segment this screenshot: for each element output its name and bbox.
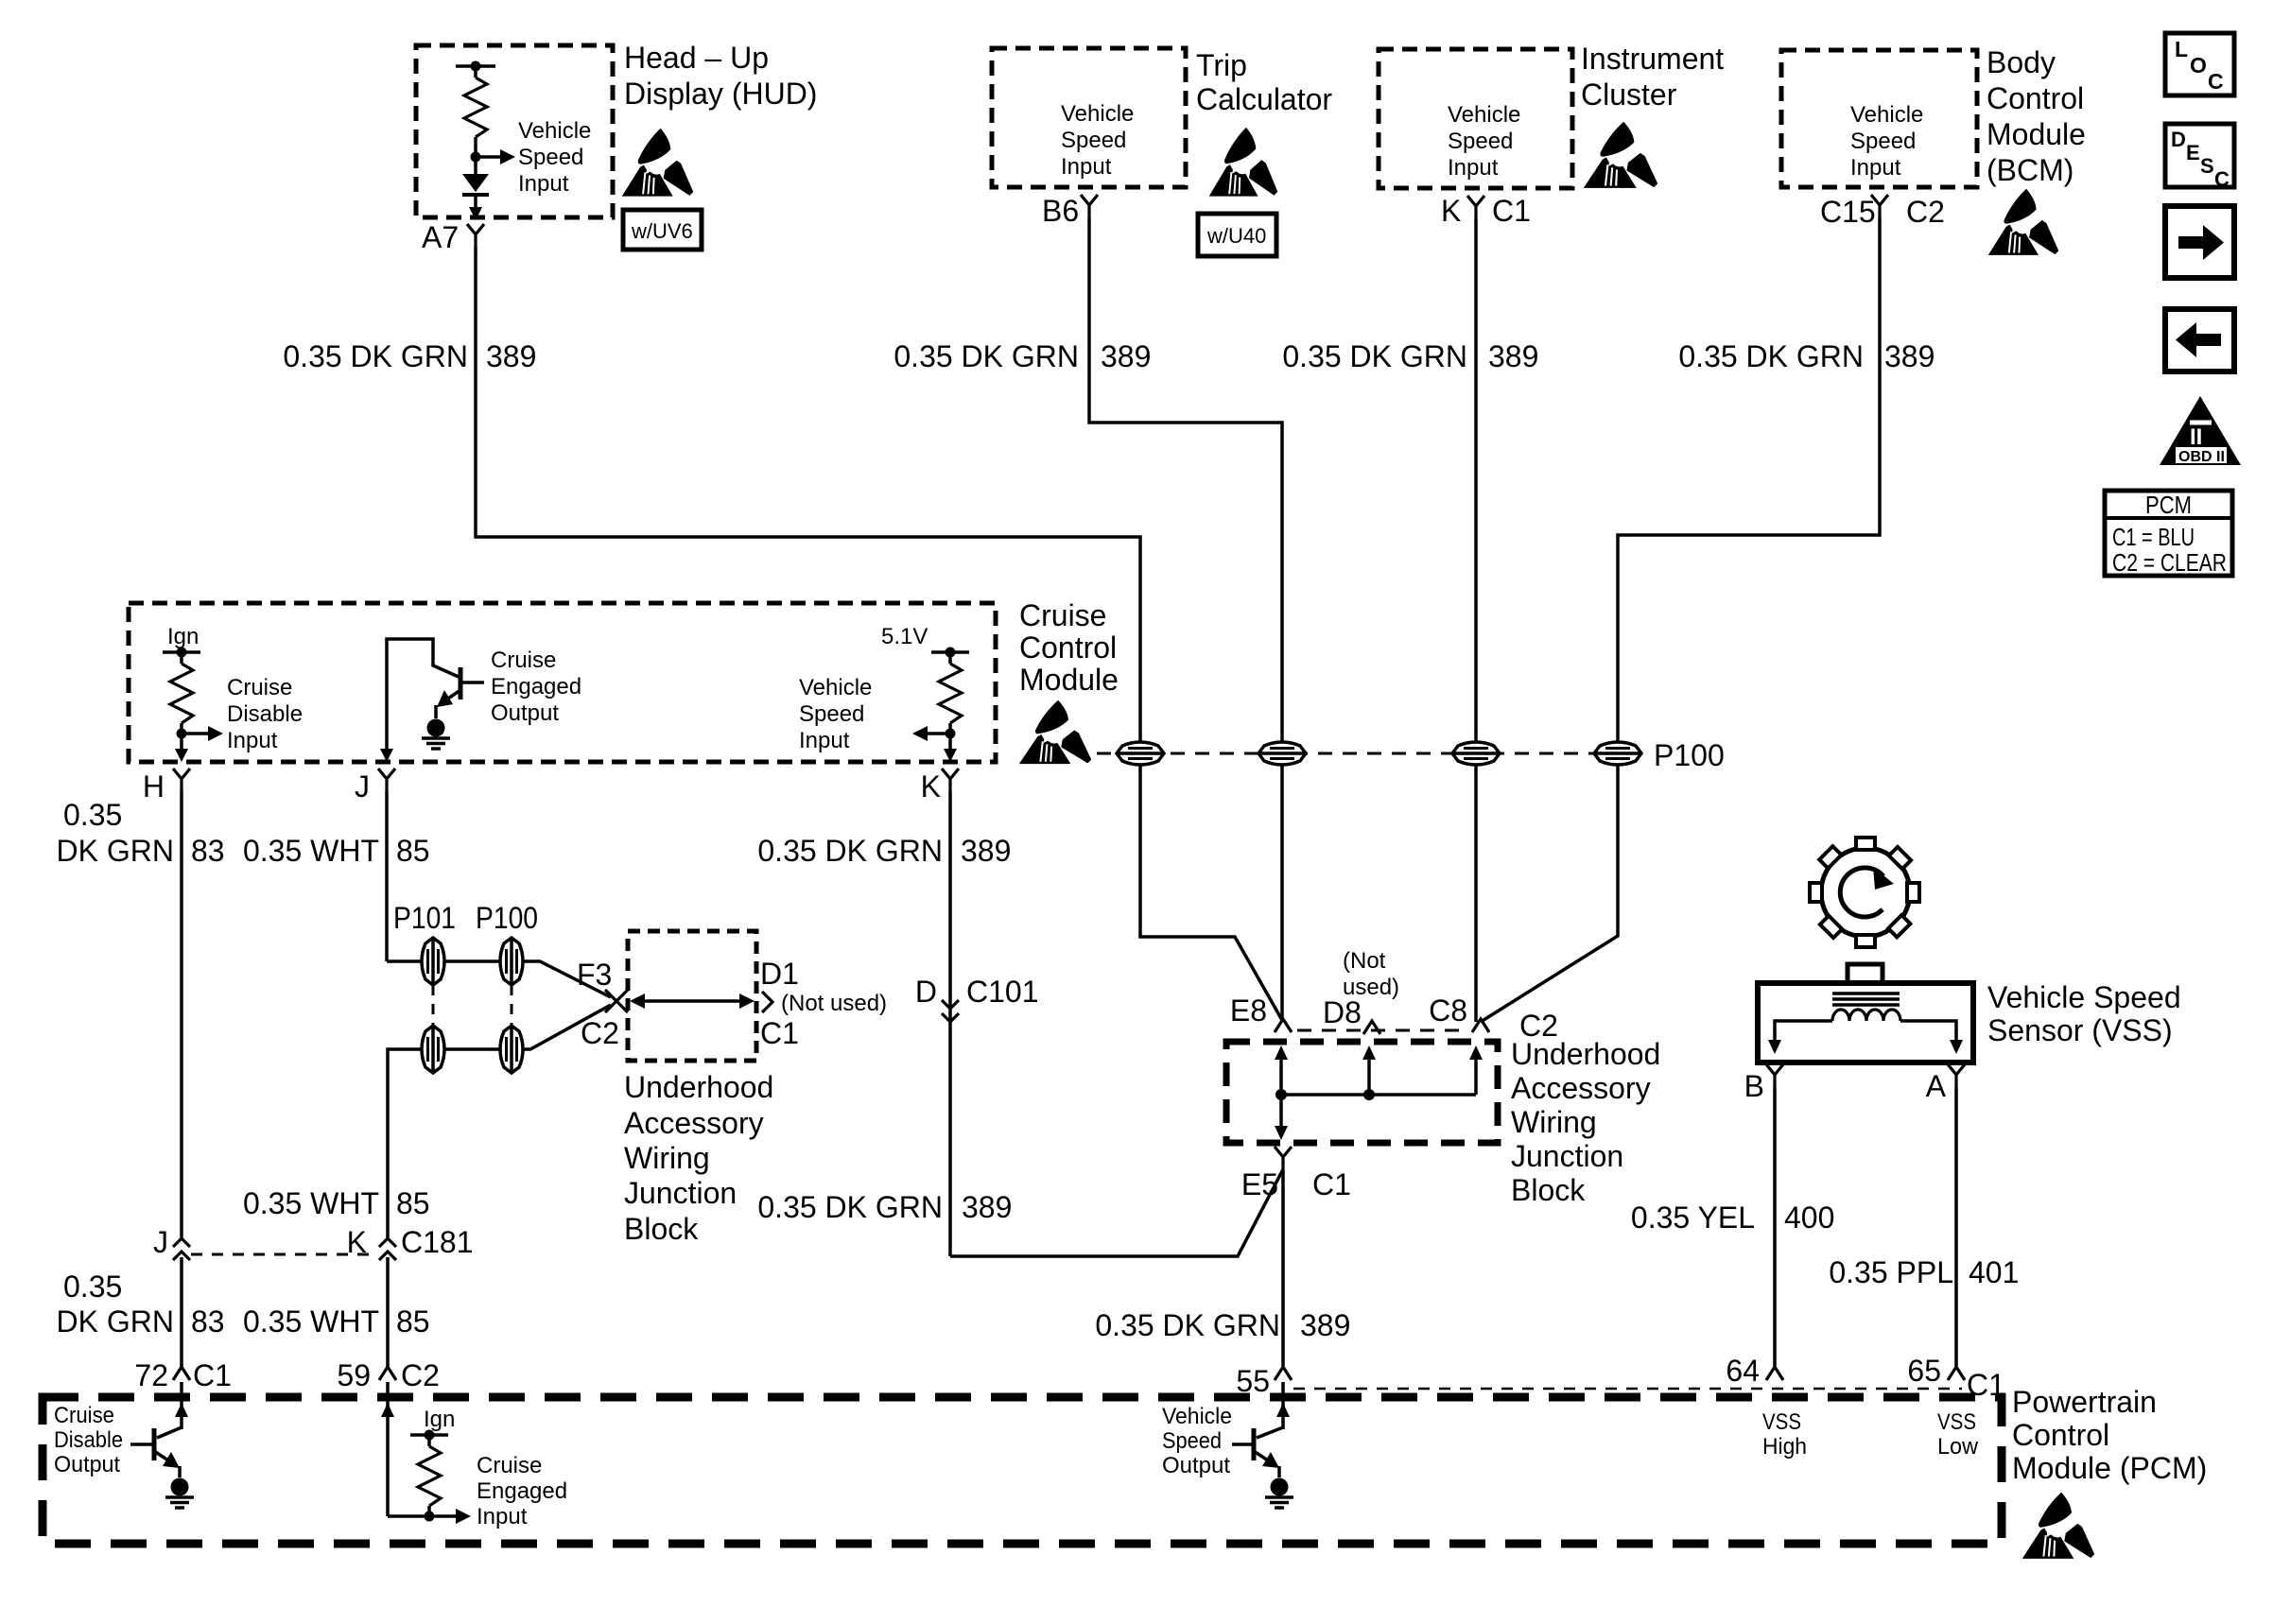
svg-text:Cruise: Cruise (477, 1453, 542, 1478)
svg-text:C: C (2208, 69, 2224, 94)
svg-text:Input: Input (799, 728, 850, 753)
svg-text:S: S (2200, 154, 2214, 178)
svg-text:72: 72 (134, 1358, 168, 1392)
pin E8 connector caret (1275, 1019, 1292, 1032)
Cruise Disable Output text (54, 1403, 123, 1477)
ground (cruise engaged output emitter) (422, 719, 450, 750)
Body Control Module box (1781, 50, 1977, 187)
pin 55 connector caret (1275, 1367, 1292, 1380)
ESD symbol (HUD) (622, 129, 693, 197)
svg-text:E8: E8 (1230, 993, 1267, 1028)
HUD junction node with arrow to Vehicle Speed Input (471, 137, 516, 174)
svg-text:DK GRN: DK GRN (57, 834, 174, 868)
wire label 0.35 DK GRN 389 (cruise K) (757, 834, 1011, 868)
ESD symbol (Trip Calculator) (1209, 128, 1278, 197)
svg-text:K: K (921, 769, 941, 803)
wire label 0.35 DK GRN 389 (cruise K lower) (757, 1190, 1012, 1224)
svg-text:85: 85 (396, 834, 430, 868)
svg-text:Speed: Speed (799, 701, 864, 727)
svg-text:Disable: Disable (54, 1427, 123, 1453)
VSS internal leads with arrows (1768, 1021, 1963, 1054)
inline connector P101 (upper) (422, 938, 444, 985)
pin E5/C1 connector (1275, 1147, 1292, 1169)
svg-text:PCM: PCM (2145, 491, 2192, 519)
svg-text:389: 389 (1488, 339, 1538, 373)
svg-text:Cruise: Cruise (54, 1403, 114, 1428)
PCM connector C1 dashed pin line (1293, 1388, 1962, 1391)
inline connector P100 on wire 1 (1117, 742, 1164, 765)
svg-text:Speed: Speed (518, 145, 583, 170)
not-used pin mark (left JB) (762, 992, 772, 1012)
svg-text:0.35 DK GRN: 0.35 DK GRN (757, 834, 943, 868)
svg-text:C2: C2 (1906, 195, 1945, 229)
inline connector P101 (lower) (422, 1026, 444, 1073)
svg-text:0.35: 0.35 (63, 1270, 122, 1304)
VSS High text (1762, 1409, 1807, 1460)
Vehicle Speed Sensor body (1758, 964, 1973, 1063)
wire label 0.35 DK GRN 389 (Trip) (894, 339, 1151, 373)
BCM label (1987, 45, 2086, 187)
OBD II symbol (2160, 396, 2241, 465)
wire label 0.35 PPL 401 (1829, 1255, 2019, 1289)
svg-text:Vehicle: Vehicle (1061, 101, 1134, 127)
inline connector P100 (lower) (500, 1026, 523, 1073)
svg-text:Cluster: Cluster (1581, 78, 1677, 112)
wire label 0.35 DK GRN 389 (BCM) (1678, 339, 1935, 373)
wire label 0.35 WHT 85 (lower) (243, 1304, 430, 1339)
Underhood Accessory Wiring Junction Block text (middle) (1511, 1037, 1660, 1207)
PCM connector legend box (2105, 491, 2232, 577)
svg-text:C1: C1 (1492, 194, 1531, 228)
dashed link P101 pair (432, 985, 435, 1030)
svg-text:D: D (915, 975, 937, 1009)
svg-text:L: L (2175, 37, 2188, 61)
Trip Calculator module box (992, 48, 1186, 187)
svg-text:P100: P100 (476, 901, 538, 935)
junction block top dashed pin line (1297, 1029, 1464, 1032)
svg-text:Sensor (VSS): Sensor (VSS) (1987, 1013, 2173, 1047)
(Not used) note (mid JB D8) (1343, 948, 1399, 1000)
svg-text:0.35 DK GRN: 0.35 DK GRN (1678, 339, 1864, 373)
junction with arrow to Vehicle Speed Input (cruise) (912, 723, 957, 762)
svg-text:B6: B6 (1042, 194, 1079, 228)
svg-text:0.35 DK GRN: 0.35 DK GRN (1282, 339, 1467, 373)
P100 pass-through dashed line (1097, 752, 1598, 755)
svg-text:(Not: (Not (1343, 948, 1386, 974)
svg-text:Input: Input (1061, 154, 1112, 180)
Cruise Disable Input text (227, 675, 303, 753)
svg-text:0.35: 0.35 (63, 798, 122, 832)
resistor (vehicle speed input pull-up, cruise) (939, 664, 962, 723)
Ign feed bar with junction (cruise disable) (163, 648, 200, 665)
wire label 0.35 DK GRN 389 (PCM 55) (1095, 1308, 1350, 1342)
pin B connector (1766, 1064, 1783, 1087)
svg-text:Wiring: Wiring (624, 1141, 710, 1175)
wire 59/C2 internal with up arrow (381, 1382, 471, 1524)
svg-text:Speed: Speed (1850, 129, 1916, 154)
svg-text:Control: Control (2012, 1418, 2109, 1452)
pin B6 connector (1081, 195, 1098, 217)
w/U40 option box (1198, 214, 1276, 256)
svg-text:J: J (355, 769, 370, 803)
svg-text:C2 = CLEAR: C2 = CLEAR (2112, 548, 2227, 577)
svg-text:II: II (2190, 424, 2202, 450)
pin 64 connector caret (1766, 1367, 1783, 1380)
VSS coil winding (1832, 1010, 1900, 1021)
wire H upper (0.35 DK GRN 83) (180, 791, 183, 1238)
svg-text:0.35 YEL: 0.35 YEL (1631, 1201, 1755, 1235)
svg-text:Body: Body (1987, 45, 2056, 79)
svg-text:C1: C1 (1312, 1167, 1351, 1201)
svg-text:Output: Output (491, 700, 559, 726)
svg-text:389: 389 (486, 339, 536, 373)
svg-text:C1: C1 (1967, 1368, 2005, 1402)
pin J connector (378, 769, 395, 791)
VSS core lines (1832, 993, 1900, 1005)
dashed link P100 pair (511, 985, 513, 1030)
wire cruise K lower run to E5 (950, 1169, 1283, 1256)
ground (cruise disable output) (165, 1478, 194, 1509)
svg-text:A7: A7 (422, 220, 459, 254)
wire J to junction block (upper run) (387, 961, 611, 997)
wire J upper (0.35 WHT 85) (385, 791, 389, 961)
svg-text:C181: C181 (401, 1225, 474, 1259)
internal bus of middle junction block (1275, 1045, 1483, 1140)
pin C8 connector caret (1472, 1019, 1489, 1032)
svg-text:Vehicle: Vehicle (799, 675, 872, 700)
svg-text:E: E (2186, 141, 2200, 164)
pin K connector (cruise) (942, 769, 959, 791)
svg-text:D: D (2171, 128, 2186, 151)
svg-text:0.35 DK GRN: 0.35 DK GRN (894, 339, 1079, 373)
HUD module label (624, 41, 817, 111)
svg-text:P100: P100 (1654, 738, 1725, 772)
svg-text:Wiring: Wiring (1511, 1105, 1597, 1139)
wire label 0.35 DK GRN 83 (lower) (57, 1270, 225, 1339)
BCM small text (1850, 102, 1923, 181)
transistor Q (vehicle speed output, PCM) (1232, 1382, 1290, 1477)
Instrument Cluster label (1581, 42, 1724, 112)
svg-text:Cruise: Cruise (1019, 598, 1106, 632)
5.1V feed bar with junction (931, 648, 969, 665)
connector C181 dashed line (191, 1253, 378, 1256)
svg-text:C15: C15 (1820, 195, 1876, 229)
inline connector P100 (upper) (500, 938, 523, 985)
svg-text:H: H (143, 769, 165, 803)
Vehicle Speed Input text (cruise) (799, 675, 872, 753)
svg-text:0.35 DK GRN: 0.35 DK GRN (757, 1190, 943, 1224)
svg-text:K: K (347, 1225, 367, 1259)
Ign feed bar (PCM) (410, 1430, 448, 1447)
resistor (cruise engaged input pull-up, PCM) (418, 1446, 441, 1506)
LOC navigation icon (2165, 33, 2234, 95)
svg-text:K: K (1441, 194, 1461, 228)
pin 65 connector caret (1948, 1367, 1965, 1380)
Instrument Cluster module box (1379, 49, 1572, 188)
inline connector P100 on wire 2 (1258, 742, 1306, 765)
wire label 0.35 DK GRN 83 (upper) (57, 798, 225, 868)
Instrument Cluster small text (1448, 102, 1520, 181)
Powertrain Control Module label (2012, 1385, 2207, 1485)
svg-text:Underhood: Underhood (1511, 1037, 1660, 1071)
svg-text:Trip: Trip (1196, 48, 1247, 82)
svg-text:59: 59 (337, 1358, 371, 1392)
wire label 0.35 DK GRN 389 (Cluster) (1282, 339, 1538, 373)
wire label 0.35 DK GRN 389 (HUD) (283, 339, 536, 373)
ground (vehicle speed output) (1265, 1478, 1293, 1509)
svg-text:Engaged: Engaged (491, 674, 581, 700)
svg-text:5.1V: 5.1V (881, 624, 928, 649)
wire label 0.35 WHT 85 (upper) (243, 834, 430, 868)
inline connector P100 on wire 4 (1594, 742, 1641, 765)
VSS Low text (1937, 1409, 1979, 1460)
w/UV6 option box (623, 210, 702, 250)
svg-text:Junction: Junction (624, 1176, 737, 1210)
svg-text:83: 83 (191, 834, 225, 868)
Head-Up Display module box (416, 45, 613, 217)
svg-text:C1: C1 (760, 1016, 799, 1050)
wire E5/C1 down to PCM pin 55 (1281, 1169, 1285, 1367)
wire H lower to PCM pin 72 (180, 1257, 183, 1367)
svg-text:Block: Block (624, 1212, 699, 1246)
wire from BCM C15/C2 (0.35 DK GRN 389) (1481, 217, 1880, 1022)
svg-text:C8: C8 (1429, 993, 1467, 1028)
wire from Trip Calculator B6 (0.35 DK GRN 389) (1089, 217, 1282, 1022)
svg-text:Output: Output (1162, 1453, 1230, 1478)
Cruise Engaged Output text (491, 648, 581, 726)
svg-text:Control: Control (1019, 631, 1117, 665)
svg-text:Ign: Ign (424, 1407, 455, 1432)
svg-text:64: 64 (1726, 1354, 1760, 1388)
svg-text:85: 85 (396, 1186, 430, 1220)
svg-text:400: 400 (1784, 1201, 1834, 1235)
connector D/C101 on cruise K wire (942, 1000, 959, 1022)
svg-text:Powertrain: Powertrain (2012, 1385, 2157, 1419)
svg-text:OBD II: OBD II (2178, 449, 2225, 465)
Trip Calculator label (1196, 48, 1332, 116)
wire from Instrument Cluster K/C1 (0.35 DK GRN 389) (1474, 218, 1478, 1022)
Cruise Control Module label (1019, 598, 1119, 697)
HUD small text Vehicle Speed Input (518, 118, 591, 197)
DESC navigation icon (2165, 124, 2234, 191)
svg-text:Input: Input (477, 1504, 528, 1529)
wire VSS B (0.35 YEL 400) (1773, 1087, 1777, 1369)
svg-text:Instrument: Instrument (1581, 42, 1724, 76)
svg-text:w/UV6: w/UV6 (631, 219, 693, 243)
svg-text:P101: P101 (393, 901, 456, 935)
svg-text:Vehicle: Vehicle (1850, 102, 1923, 128)
svg-text:C1: C1 (193, 1358, 232, 1392)
svg-text:Input: Input (1850, 155, 1901, 181)
svg-text:VSS: VSS (1762, 1409, 1801, 1435)
pin A connector (1948, 1064, 1965, 1087)
svg-text:D8: D8 (1323, 995, 1362, 1029)
wire from HUD A7 (0.35 DK GRN 389) (476, 247, 1283, 1022)
svg-text:Module (PCM): Module (PCM) (2012, 1451, 2207, 1485)
svg-text:Module: Module (1019, 663, 1119, 697)
svg-text:Display (HUD): Display (HUD) (624, 77, 817, 111)
ESD symbol (Cruise Control Module) (1019, 700, 1091, 764)
svg-text:0.35 DK GRN: 0.35 DK GRN (283, 339, 468, 373)
svg-text:Vehicle Speed: Vehicle Speed (1987, 980, 2181, 1014)
svg-text:D1: D1 (760, 957, 799, 991)
svg-text:85: 85 (396, 1304, 430, 1339)
resistor (cruise disable input pull-up) (170, 664, 193, 723)
ESD symbol (Instrument Cluster) (1584, 122, 1657, 188)
svg-text:Input: Input (1448, 155, 1499, 181)
pin H connector (173, 769, 190, 791)
svg-text:VSS: VSS (1937, 1409, 1976, 1435)
Vehicle Speed Sensor label (1987, 980, 2181, 1047)
svg-text:Speed: Speed (1448, 129, 1513, 154)
svg-text:Output: Output (54, 1452, 120, 1477)
right arrow navigation icon (2165, 206, 2234, 278)
svg-text:401: 401 (1969, 1255, 2019, 1289)
svg-text:Block: Block (1511, 1173, 1586, 1207)
svg-text:Engaged: Engaged (477, 1478, 567, 1504)
junction with arrow to Cruise Disable Input (175, 723, 223, 762)
svg-text:389: 389 (962, 1190, 1012, 1224)
pin connector C15/C2 (BCM) (1871, 195, 1888, 217)
svg-text:B: B (1744, 1069, 1764, 1103)
svg-text:Junction: Junction (1511, 1139, 1623, 1173)
svg-text:Speed: Speed (1162, 1428, 1222, 1454)
diode D (HUD input clamp) (462, 174, 489, 220)
wire K upper (0.35 DK GRN 389 cruise) (948, 791, 952, 1256)
svg-text:Input: Input (518, 171, 569, 197)
svg-text:65: 65 (1907, 1354, 1941, 1388)
svg-text:389: 389 (1101, 339, 1151, 373)
svg-text:High: High (1762, 1434, 1807, 1460)
svg-text:O: O (2190, 53, 2207, 78)
svg-text:Vehicle: Vehicle (518, 118, 591, 144)
pin 59 connector caret (379, 1367, 396, 1380)
svg-text:Low: Low (1937, 1434, 1979, 1460)
Underhood Accessory Wiring Junction Block text (left) (624, 1070, 773, 1246)
svg-text:Input: Input (227, 728, 278, 753)
transistor Q (cruise engaged output) (380, 639, 484, 762)
transistor Q (cruise disable output, PCM) (130, 1382, 188, 1477)
svg-text:Accessory: Accessory (1511, 1071, 1651, 1105)
svg-text:C1 = BLU: C1 = BLU (2112, 523, 2195, 551)
svg-text:E5: E5 (1241, 1167, 1278, 1201)
svg-text:A: A (1926, 1069, 1947, 1103)
svg-text:C2: C2 (581, 1016, 619, 1050)
svg-text:C: C (2214, 167, 2230, 191)
wire label 0.35 YEL 400 (1631, 1201, 1834, 1235)
VSS tone wheel gear (1787, 814, 1942, 969)
wire K-C181 to junction block (lower run) (388, 1005, 611, 1238)
resistor (HUD vehicle speed input pull-up) (464, 78, 487, 137)
svg-text:0.35 DK GRN: 0.35 DK GRN (1095, 1308, 1280, 1342)
pin J connector C181 (double chevron) (173, 1238, 190, 1260)
svg-text:Head – Up: Head – Up (624, 41, 769, 75)
ESD symbol (BCM) (1988, 189, 2058, 255)
svg-text:Calculator: Calculator (1196, 82, 1332, 116)
svg-text:389: 389 (1884, 339, 1935, 373)
svg-text:DK GRN: DK GRN (57, 1304, 174, 1339)
Underhood Accessory Wiring Junction Block (middle) box (1226, 1042, 1498, 1143)
svg-text:Vehicle: Vehicle (1448, 102, 1520, 128)
svg-text:0.35 WHT: 0.35 WHT (243, 834, 379, 868)
crossover pin X (F3/C2) (605, 990, 628, 1012)
svg-text:0.35 WHT: 0.35 WHT (243, 1186, 379, 1220)
svg-text:Cruise: Cruise (491, 648, 556, 673)
wire VSS A (0.35 PPL 401) (1954, 1087, 1958, 1369)
Trip Calculator small text (1061, 101, 1134, 180)
Powertrain Control Module box (43, 1397, 2002, 1544)
HUD internal top bar with junction (456, 61, 495, 78)
Cruise Control Module box (129, 603, 996, 762)
inline connector P100 on wire 3 (1452, 742, 1500, 765)
svg-text:C101: C101 (966, 975, 1039, 1009)
svg-text:389: 389 (1300, 1308, 1350, 1342)
svg-text:C2: C2 (401, 1358, 440, 1392)
svg-text:F3: F3 (577, 958, 612, 992)
wire K-C181 lower to PCM pin 59 (386, 1257, 390, 1367)
Underhood Accessory Wiring Junction Block (left) box (628, 931, 756, 1061)
svg-text:Cruise: Cruise (227, 675, 292, 700)
svg-text:Disable: Disable (227, 701, 303, 727)
pin 72 connector caret (173, 1367, 190, 1380)
svg-text:Underhood: Underhood (624, 1070, 773, 1104)
svg-text:J: J (153, 1225, 168, 1259)
svg-text:83: 83 (191, 1304, 225, 1339)
left arrow navigation icon (2165, 309, 2234, 371)
pin K connector C181 (double chevron) (379, 1238, 396, 1260)
svg-text:Vehicle: Vehicle (1162, 1404, 1232, 1429)
svg-text:Accessory: Accessory (624, 1106, 764, 1140)
svg-text:Speed: Speed (1061, 128, 1126, 153)
svg-text:0.35 WHT: 0.35 WHT (243, 1304, 379, 1339)
wire label 0.35 WHT 85 (middle) (243, 1186, 430, 1220)
svg-text:(Not used): (Not used) (781, 991, 887, 1016)
pin A7 connector (467, 224, 484, 247)
svg-text:55: 55 (1236, 1364, 1270, 1398)
Cruise Engaged Input text (477, 1453, 567, 1529)
svg-text:(BCM): (BCM) (1987, 153, 2073, 187)
svg-text:w/U40: w/U40 (1206, 224, 1266, 248)
pin connector K/C1 (cluster) (1467, 196, 1484, 218)
Vehicle Speed Output text (1162, 1404, 1232, 1478)
svg-text:389: 389 (961, 834, 1011, 868)
ESD symbol (PCM) (2022, 1493, 2094, 1559)
svg-text:Control: Control (1987, 81, 2084, 115)
svg-text:Module: Module (1987, 117, 2086, 151)
pin D8 connector caret (1363, 1021, 1380, 1034)
svg-text:0.35 PPL: 0.35 PPL (1829, 1255, 1953, 1289)
svg-text:Ign: Ign (167, 624, 199, 649)
jumper arrow inside left junction block (630, 993, 755, 1009)
